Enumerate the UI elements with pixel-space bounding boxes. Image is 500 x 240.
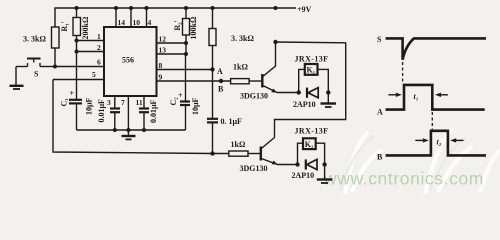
diode D2 2AP10 (306, 159, 317, 169)
svg-text:9: 9 (159, 73, 163, 82)
svg-text:K₂: K₂ (305, 140, 314, 149)
svg-text:2: 2 (97, 43, 101, 52)
node dot collector feed (274, 6, 278, 10)
+9V top rail wire (55, 8, 296, 27)
wire pin8 row (157, 69, 213, 71)
node dot switch junction (53, 65, 57, 69)
watermark logo leaves (345, 128, 500, 195)
dashed line S to A (402, 62, 404, 84)
svg-text:JRX-13F: JRX-13F (295, 55, 329, 64)
svg-text:10: 10 (133, 18, 141, 27)
svg-text:2AP10: 2AP10 (293, 100, 316, 109)
node dot pin10 (129, 6, 133, 10)
wire Q1 emitter row (277, 92, 299, 94)
wire pin4 (146, 8, 148, 27)
wire pin10 (130, 8, 132, 27)
wire pin7 to ground (127, 96, 129, 130)
svg-text:3DG130: 3DG130 (240, 92, 268, 101)
node dot pin13 (184, 52, 188, 56)
capacitor 0.1uF (207, 70, 218, 154)
svg-text:13: 13 (159, 46, 167, 55)
waveform S trace (386, 38, 486, 59)
svg-text:200kΩ: 200kΩ (81, 16, 90, 39)
wire collector feed frame (275, 42, 346, 138)
ground (K2) (317, 165, 333, 184)
node dot 100k top (184, 6, 188, 10)
node B (219, 79, 223, 83)
arrow left t2 (415, 138, 429, 142)
svg-text:S: S (377, 35, 382, 44)
node dot collector feed junction (273, 40, 277, 44)
node dot pin12 (184, 41, 188, 45)
Q1 emitter arrowhead (271, 89, 277, 93)
wire pin14 (115, 8, 117, 27)
svg-text:1kΩ: 1kΩ (231, 140, 246, 149)
arrow right t1 (435, 93, 448, 97)
op-amp U1 556 IC box (104, 27, 157, 96)
svg-text:C₂: C₂ (169, 97, 178, 106)
svg-text:2AP10: 2AP10 (292, 171, 315, 180)
resistor R1' 200k (73, 8, 81, 52)
diode D1 2AP10 (307, 88, 318, 98)
resistor 3.3k right (209, 8, 216, 70)
svg-text:t₂: t₂ (437, 138, 442, 147)
capacitor 0.01uF pin3 (110, 96, 120, 130)
transistor Q1 3DG130 top (262, 42, 276, 92)
node dot pin2 junction (75, 50, 79, 54)
resistor 1k top (231, 79, 250, 84)
relay K2 JRX-13F (298, 138, 325, 164)
svg-text:A: A (377, 108, 383, 117)
arrow left t1 (388, 93, 401, 97)
capacitor C2 10uF (180, 54, 190, 130)
svg-text:C₁: C₁ (60, 98, 69, 107)
svg-text:10μF: 10μF (85, 97, 94, 115)
Q2 emitter arrowhead (272, 161, 278, 165)
svg-text:www.cntronics.com: www.cntronics.com (323, 169, 484, 189)
wire 1k bottom to base (248, 153, 260, 155)
wire pin9 row (157, 80, 231, 82)
svg-text:JRX-13F: JRX-13F (295, 127, 329, 136)
svg-text:0. 1μF: 0. 1μF (221, 117, 243, 126)
wire pin5 long run to lower driver (53, 80, 229, 154)
svg-text:11: 11 (136, 98, 143, 107)
svg-text:B: B (218, 85, 224, 94)
node dot 200k top (75, 6, 79, 10)
wire pin2 (77, 51, 105, 53)
wire Q2 emitter row (277, 164, 298, 166)
ground (K1) (321, 93, 337, 108)
svg-text:B: B (377, 153, 383, 162)
relay K1 JRX-13F (299, 64, 329, 93)
node dot pin14 (114, 6, 118, 10)
svg-text:t₁: t₁ (414, 92, 419, 101)
node dot pin3 cap to rail (113, 128, 117, 132)
svg-text:R₂′: R₂′ (173, 20, 182, 30)
svg-text:6: 6 (97, 58, 101, 67)
ground (main) (122, 130, 136, 139)
node dot diode anode (297, 90, 301, 94)
ground (switch) (10, 67, 24, 90)
svg-text:R₁′: R₁′ (60, 21, 69, 31)
svg-text:+9V: +9V (297, 5, 312, 14)
node dot pin1 junction (75, 39, 79, 43)
wire 1k top to base (249, 80, 261, 82)
node dot pin7 rail (126, 128, 130, 132)
wire pin5 (53, 79, 104, 81)
node dot pin11 cap to rail (142, 128, 146, 132)
resistor 1k bottom (229, 151, 248, 156)
svg-text:10μF: 10μF (191, 97, 200, 115)
svg-text:0.01μF: 0.01μF (97, 99, 106, 123)
svg-text:7: 7 (121, 98, 125, 107)
svg-text:+: + (70, 89, 75, 98)
switch S (16, 59, 55, 67)
svg-text:3: 3 (107, 98, 111, 107)
svg-text:S: S (34, 70, 39, 79)
resistor R2' 100k (183, 8, 190, 54)
svg-text:A: A (217, 67, 223, 76)
node dot diode cathode (326, 90, 330, 94)
wire pin13 (157, 53, 187, 55)
node dot pin4 (145, 6, 149, 10)
svg-text:100kΩ: 100kΩ (189, 16, 198, 39)
node A (210, 67, 214, 71)
node dot diode2 anode (295, 162, 299, 166)
node dot 0.1uF junction (210, 151, 214, 155)
arrow right t2 (450, 138, 463, 142)
svg-text:1: 1 (97, 32, 101, 41)
node dot diode2 cathode (322, 162, 326, 166)
ground rail bottom wire (77, 129, 186, 131)
svg-text:5: 5 (92, 70, 96, 79)
svg-text:0.01μF: 0.01μF (149, 99, 158, 123)
node dot 3.3k right top (211, 6, 215, 10)
resistor 3.3k left (52, 27, 60, 67)
svg-text:3. 3kΩ: 3. 3kΩ (23, 35, 46, 44)
svg-text:K₁: K₁ (307, 66, 316, 75)
capacitor C1 10uF (69, 52, 82, 131)
svg-text:3. 3kΩ: 3. 3kΩ (231, 34, 254, 43)
svg-text:556: 556 (122, 56, 134, 65)
svg-text:1kΩ: 1kΩ (233, 63, 248, 72)
capacitor 0.01uF pin11 (139, 96, 149, 130)
wire pin12 (157, 42, 187, 44)
waveform A trace (386, 85, 485, 110)
svg-text:8: 8 (159, 61, 163, 70)
wire pin6 (55, 66, 104, 68)
wire pin1 (77, 40, 105, 42)
transistor Q2 3DG130 bottom (261, 138, 277, 165)
svg-text:14: 14 (118, 18, 126, 27)
svg-text:12: 12 (159, 35, 167, 44)
waveform B trace (386, 131, 486, 156)
dashed line A to B (431, 112, 433, 130)
svg-text:+: + (178, 91, 183, 100)
svg-text:4: 4 (148, 18, 152, 27)
svg-text:3DG130: 3DG130 (240, 164, 268, 173)
